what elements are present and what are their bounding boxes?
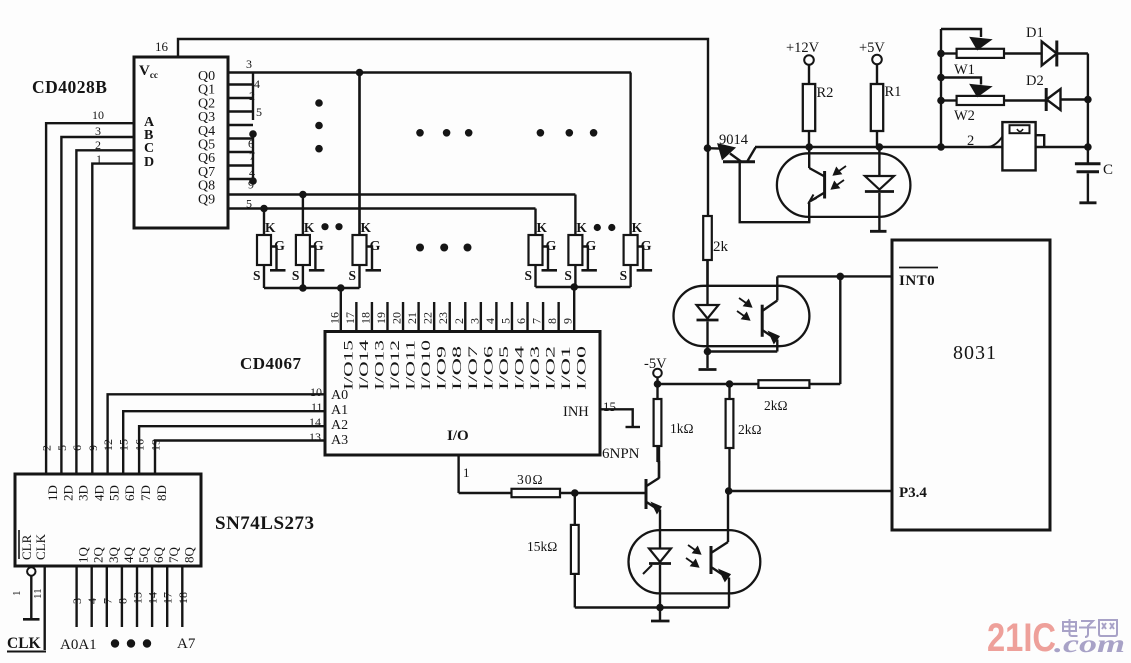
svg-text:K: K bbox=[576, 220, 587, 235]
thyristor V5 K lead bbox=[574, 195, 576, 236]
wire CD4067 IO12 stub bbox=[386, 302, 388, 332]
svg-text:+5V: +5V bbox=[859, 40, 885, 56]
wire 30ohm to base bbox=[560, 492, 645, 494]
svg-text:4: 4 bbox=[483, 318, 497, 324]
potentiometer W1 wiper bbox=[941, 29, 981, 37]
svg-text:I/O15: I/O15 bbox=[341, 340, 355, 390]
transistor Q1 emitter with arrow bbox=[647, 502, 659, 510]
svg-text:CLK: CLK bbox=[7, 635, 41, 652]
resistor R2 bbox=[808, 65, 810, 84]
node R2 bus bbox=[805, 143, 813, 151]
opto3 phototransistor bbox=[710, 546, 713, 574]
wire B to 2D bbox=[61, 137, 134, 474]
wire INH termination bbox=[600, 409, 633, 426]
wire CD4067 IO9 stub bbox=[433, 302, 435, 332]
transistor Q2 base bar bbox=[723, 160, 755, 163]
node W bus bbox=[937, 143, 945, 151]
node cap top bbox=[1084, 143, 1092, 151]
opto2 emitter return wire bbox=[708, 350, 778, 352]
svg-text:G: G bbox=[274, 239, 285, 254]
wire 2k to opto2 LED bbox=[706, 260, 708, 286]
wire CD4067 IO7 stub bbox=[464, 302, 466, 332]
wire Vcc pin16 to node bbox=[178, 39, 708, 216]
ellipsis upper row right bbox=[537, 129, 545, 137]
ellipsis between SCR2 SCR3 bbox=[321, 223, 328, 230]
wire Q1 stub bbox=[228, 83, 253, 85]
svg-text:1Q: 1Q bbox=[76, 547, 91, 564]
svg-text:5: 5 bbox=[55, 445, 69, 451]
wire junction to 15k bbox=[574, 493, 576, 525]
svg-text:A0: A0 bbox=[331, 388, 348, 403]
ellipsis SCR row middle bbox=[416, 244, 424, 252]
svg-text:13: 13 bbox=[309, 430, 321, 444]
svg-text:17: 17 bbox=[343, 312, 357, 324]
svg-text:9: 9 bbox=[86, 445, 100, 451]
svg-text:12: 12 bbox=[101, 439, 115, 451]
IC U2 CD4067 body bbox=[325, 332, 600, 456]
svg-text:11: 11 bbox=[32, 588, 44, 599]
thyristor V3 S lead bbox=[358, 265, 360, 288]
wire Q2 stub bbox=[228, 97, 253, 99]
svg-text:I/O11: I/O11 bbox=[404, 340, 418, 390]
wire A1 from 6D bbox=[123, 411, 325, 474]
thyristor V4 K lead bbox=[534, 209, 536, 236]
svg-text:21: 21 bbox=[405, 312, 419, 324]
wire A3 from 8D bbox=[155, 441, 325, 475]
watermark dian zi wang glyphs bbox=[1063, 619, 1117, 637]
opto2 phototransistor bbox=[761, 305, 764, 337]
svg-text:G: G bbox=[585, 239, 596, 254]
svg-text:G: G bbox=[370, 239, 381, 254]
node stub tie bottom bbox=[249, 177, 257, 185]
thyristor V3 gate lead bbox=[367, 247, 373, 270]
transistor Q2 collector bbox=[748, 148, 756, 162]
svg-text:I/O7: I/O7 bbox=[466, 346, 480, 390]
svg-text:A0A1: A0A1 bbox=[60, 637, 97, 653]
thyristor V1 S lead bbox=[263, 265, 265, 288]
wire INT0 line bbox=[777, 275, 892, 277]
wire U3 output 5Q bbox=[136, 566, 138, 627]
svg-text:S: S bbox=[253, 268, 261, 283]
wire U3 output 4Q bbox=[121, 566, 123, 627]
node INT0 junction bbox=[837, 273, 845, 281]
wire W1 to D1 bbox=[1004, 52, 1042, 54]
wire CD4067 IO1 stub bbox=[557, 302, 559, 332]
svg-text:A2: A2 bbox=[331, 418, 348, 433]
svg-text:7: 7 bbox=[100, 598, 114, 604]
svg-text:INH: INH bbox=[563, 404, 589, 420]
potentiometer W2 body bbox=[957, 96, 1004, 105]
node opto3 LED cathode bbox=[656, 604, 664, 612]
svg-text:23: 23 bbox=[436, 312, 450, 324]
svg-text:5: 5 bbox=[256, 105, 262, 119]
svg-text:I/O12: I/O12 bbox=[388, 340, 402, 390]
thyristor V5 body bbox=[568, 235, 582, 265]
optocoupler U5 body bbox=[629, 530, 761, 593]
svg-text:CD4067: CD4067 bbox=[240, 354, 302, 373]
opto3 LED bbox=[659, 531, 661, 549]
svg-text:G: G bbox=[546, 239, 557, 254]
svg-text:S: S bbox=[292, 268, 300, 283]
ground opto2 bbox=[699, 368, 717, 371]
svg-text:SN74LS273: SN74LS273 bbox=[215, 513, 315, 534]
svg-text:4D: 4D bbox=[91, 485, 106, 501]
svg-text:6: 6 bbox=[70, 445, 84, 451]
relay K1 body bbox=[1002, 122, 1035, 170]
svg-text:18: 18 bbox=[358, 312, 372, 324]
svg-text:A3: A3 bbox=[331, 433, 348, 448]
wire bottom bus bbox=[575, 606, 729, 608]
svg-text:C: C bbox=[144, 141, 154, 156]
svg-text:S: S bbox=[620, 268, 628, 283]
svg-text:G: G bbox=[641, 239, 652, 254]
potentiometer W1 body bbox=[957, 49, 1004, 58]
svg-text:P3.4: P3.4 bbox=[899, 485, 927, 501]
svg-text:2: 2 bbox=[40, 445, 54, 451]
wire W2 to D2 bbox=[1004, 99, 1046, 101]
svg-text:K: K bbox=[361, 220, 372, 235]
opto1 LED bbox=[878, 147, 880, 176]
svg-text:16: 16 bbox=[133, 439, 147, 451]
node 2k vertical top bbox=[726, 380, 734, 388]
resistor R6 2k bbox=[703, 216, 712, 260]
svg-text:I/O: I/O bbox=[447, 428, 469, 444]
svg-text:K: K bbox=[265, 220, 276, 235]
wire extra stub bbox=[228, 178, 253, 180]
svg-text:8: 8 bbox=[545, 318, 559, 324]
IC U3 SN74LS273 body bbox=[15, 474, 201, 566]
svg-text:I/O6: I/O6 bbox=[481, 346, 495, 390]
svg-text:8: 8 bbox=[115, 598, 129, 604]
svg-text:W2: W2 bbox=[954, 108, 975, 124]
wire I/O pin 1 bbox=[457, 455, 459, 493]
wire U3 output 7Q bbox=[166, 566, 168, 627]
svg-text:30Ω: 30Ω bbox=[517, 472, 544, 487]
svg-text:15: 15 bbox=[117, 439, 131, 451]
wire Q6 stub bbox=[228, 151, 253, 153]
svg-text:W1: W1 bbox=[954, 62, 975, 78]
svg-text:I/O5: I/O5 bbox=[497, 346, 511, 390]
svg-text:7: 7 bbox=[530, 318, 544, 324]
wire relay right lead bbox=[1036, 135, 1045, 147]
svg-text:R1: R1 bbox=[885, 84, 902, 100]
thyristor V4 S lead bbox=[534, 265, 536, 287]
wire Q9 net bbox=[228, 207, 536, 209]
svg-text:10: 10 bbox=[92, 108, 104, 122]
svg-text:22: 22 bbox=[421, 312, 435, 324]
svg-text:S: S bbox=[349, 268, 357, 283]
wire 2k to INT0 drop bbox=[809, 383, 840, 385]
svg-text:I/O2: I/O2 bbox=[544, 346, 558, 390]
node W2 left bbox=[937, 97, 945, 105]
svg-text:6: 6 bbox=[514, 318, 528, 324]
svg-text:2: 2 bbox=[452, 318, 466, 324]
node Q0-junction bbox=[356, 69, 364, 77]
thyristor V3 K lead bbox=[358, 73, 360, 236]
svg-text:1kΩ: 1kΩ bbox=[670, 421, 694, 436]
transistor Q1 collector bbox=[647, 478, 660, 486]
resistor 30ohm bbox=[512, 489, 561, 497]
wire diode output vertical bbox=[1087, 54, 1089, 164]
svg-text:I/O8: I/O8 bbox=[450, 346, 464, 390]
svg-text:I/O1: I/O1 bbox=[559, 346, 573, 390]
thyristor V2 gate lead bbox=[310, 247, 316, 270]
svg-text:D: D bbox=[144, 155, 154, 170]
thyristor V4 body bbox=[529, 235, 543, 265]
IC U1 CD4028B body bbox=[134, 57, 228, 228]
svg-text:20: 20 bbox=[390, 312, 404, 324]
resistor R3 1k bbox=[656, 384, 658, 399]
svg-text:I/O14: I/O14 bbox=[357, 339, 371, 390]
wire CD4067 IO11 stub bbox=[402, 302, 404, 332]
svg-text:10: 10 bbox=[310, 385, 322, 399]
ellipsis between SCR5 SCR6 bbox=[594, 224, 601, 231]
IC U7 8031 body bbox=[892, 240, 1050, 530]
svg-text:I/O4: I/O4 bbox=[512, 345, 526, 390]
svg-text:Vcc: Vcc bbox=[139, 63, 158, 80]
wire D to 4D bbox=[92, 164, 134, 474]
node 9014 junction bbox=[704, 144, 712, 152]
wire -5V down bbox=[656, 377, 658, 384]
wire U3 output 1Q bbox=[75, 566, 77, 627]
node S bus SCR2 bbox=[299, 284, 307, 292]
svg-text:K: K bbox=[304, 220, 315, 235]
node W1 left bbox=[937, 50, 945, 58]
svg-text:I/O0: I/O0 bbox=[575, 346, 589, 390]
transistor Q2 base lead bbox=[740, 163, 810, 222]
ground opto1 bbox=[870, 230, 887, 233]
wire to P3.4 bbox=[729, 490, 892, 492]
node S bus to IO15 bbox=[337, 284, 345, 292]
opto1 light arrows bbox=[834, 166, 846, 175]
resistor R4 2k vertical bbox=[728, 384, 730, 399]
svg-text:21IC: 21IC bbox=[987, 616, 1056, 660]
svg-text:5D: 5D bbox=[107, 485, 122, 501]
svg-text:2kΩ: 2kΩ bbox=[764, 398, 788, 413]
wire Q3 stub bbox=[228, 110, 253, 112]
svg-text:5: 5 bbox=[498, 318, 512, 324]
svg-text:18: 18 bbox=[176, 592, 190, 604]
thyristor V5 S lead bbox=[574, 265, 576, 287]
wire CD4067 IO14 stub bbox=[355, 302, 357, 332]
wire U3 output 3Q bbox=[106, 566, 108, 627]
optocoupler U6 body bbox=[777, 153, 911, 217]
node base junction bbox=[571, 489, 579, 497]
wire W chain vertical bbox=[940, 29, 942, 147]
wire S bus drop to IO15 pin16 bbox=[340, 288, 342, 332]
node W1 wiper tie bbox=[937, 74, 945, 82]
svg-text:7Q: 7Q bbox=[166, 547, 181, 564]
ground opto3 bbox=[651, 620, 670, 623]
svg-text:1D: 1D bbox=[45, 485, 60, 501]
svg-text:16: 16 bbox=[155, 39, 169, 54]
node Q9-SCR1 bbox=[260, 205, 268, 213]
svg-text:17: 17 bbox=[161, 592, 175, 604]
node -5V junction bbox=[654, 380, 662, 388]
svg-text:3D: 3D bbox=[75, 485, 90, 501]
opto3 light arrows bbox=[688, 545, 700, 554]
ellipsis upper row left bbox=[416, 129, 424, 137]
optocoupler U4 body bbox=[674, 286, 810, 346]
svg-text:I/O9: I/O9 bbox=[435, 346, 449, 390]
wire CLR pin with bubble bbox=[27, 567, 35, 575]
thyristor V1 body bbox=[257, 235, 271, 265]
wire CD4067 IO6 stub bbox=[480, 302, 482, 332]
svg-text:3: 3 bbox=[246, 57, 252, 71]
wire U3 output 2Q bbox=[90, 566, 92, 627]
transistor Q1 base bar bbox=[645, 479, 648, 509]
svg-text:2: 2 bbox=[967, 133, 974, 149]
wire right S bus bbox=[536, 286, 631, 288]
wire stub tie lower bbox=[252, 134, 254, 181]
wire Q0 net bbox=[228, 71, 631, 73]
wire pin1 to 30ohm bbox=[459, 492, 512, 494]
thyristor V2 S lead bbox=[302, 265, 304, 288]
wire CD4067 IO8 stub bbox=[449, 302, 451, 332]
wire U3 output 8Q bbox=[181, 566, 183, 627]
svg-text:4: 4 bbox=[85, 598, 99, 604]
thyristor V3 body bbox=[353, 235, 367, 265]
capacitor C bbox=[1075, 162, 1101, 165]
svg-text:3: 3 bbox=[467, 318, 481, 324]
relay K1 inner element bbox=[1010, 125, 1030, 133]
svg-text:K: K bbox=[537, 220, 548, 235]
thyristor V6 S lead bbox=[629, 265, 631, 287]
svg-text:8031: 8031 bbox=[953, 342, 997, 364]
svg-text:I/O13: I/O13 bbox=[372, 340, 386, 390]
wire right S bus drop to IO0 pin9 bbox=[573, 287, 575, 332]
wire C to 3D bbox=[76, 150, 134, 474]
thyristor V2 K lead bbox=[302, 195, 304, 236]
svg-text:8D: 8D bbox=[154, 485, 169, 501]
thyristor V1 gate lead bbox=[271, 247, 277, 270]
svg-text:A1: A1 bbox=[331, 403, 348, 418]
svg-text:6Q: 6Q bbox=[151, 547, 166, 564]
wire 15k to bottom bus bbox=[574, 574, 576, 608]
wire W1 left lead bbox=[941, 52, 957, 54]
thyristor V5 gate lead bbox=[582, 247, 588, 270]
svg-text:I/O3: I/O3 bbox=[528, 346, 542, 390]
svg-text:CD4028B: CD4028B bbox=[32, 77, 107, 97]
wire Q8 net bbox=[228, 193, 575, 195]
wire CLK pin bbox=[44, 566, 46, 650]
svg-text:+12V: +12V bbox=[786, 40, 820, 56]
node D2 right bbox=[1084, 96, 1092, 104]
svg-text:S: S bbox=[564, 268, 572, 283]
opto1 phototransistor bbox=[808, 147, 810, 168]
wire A0 from 5D bbox=[108, 394, 325, 474]
svg-text:9: 9 bbox=[248, 178, 254, 192]
opto2 light arrows bbox=[739, 298, 751, 307]
wire Q0 drop to SCR3 bbox=[358, 73, 360, 236]
svg-text:A7: A7 bbox=[177, 636, 196, 652]
node right S bus drop bbox=[570, 283, 578, 291]
svg-text:19: 19 bbox=[374, 312, 388, 324]
wire U3 output 6Q bbox=[151, 566, 153, 627]
resistor R1 bbox=[876, 64, 878, 84]
svg-text:5Q: 5Q bbox=[136, 547, 151, 564]
wire left S bus bbox=[264, 287, 360, 289]
svg-text:15: 15 bbox=[603, 399, 616, 414]
svg-text:CLR: CLR bbox=[19, 534, 34, 560]
svg-text:14: 14 bbox=[146, 592, 160, 604]
svg-text:3Q: 3Q bbox=[106, 547, 121, 564]
svg-text:8Q: 8Q bbox=[181, 547, 196, 564]
transistor Q2 9014 emitter arrow bbox=[708, 147, 721, 150]
wire CD4067 IO10 stub bbox=[417, 302, 419, 332]
wire Q5 stub bbox=[228, 137, 253, 139]
node opto2 cathode junction bbox=[704, 348, 712, 356]
svg-text:G: G bbox=[313, 239, 324, 254]
node Q8-SCR2 bbox=[299, 191, 307, 199]
thyristor V6 gate lead bbox=[638, 247, 644, 270]
wire A to 1D bbox=[46, 123, 134, 474]
ellipsis vertical Q outputs bbox=[315, 99, 323, 107]
resistor R5 2k horizontal bbox=[758, 380, 809, 388]
svg-text:3: 3 bbox=[70, 598, 84, 604]
wire collector to bus bbox=[755, 146, 1088, 148]
wire W2 left lead bbox=[941, 99, 957, 101]
svg-text:1: 1 bbox=[463, 465, 470, 480]
thyristor V6 body bbox=[624, 235, 638, 265]
thyristor V4 gate lead bbox=[543, 247, 549, 270]
svg-text:CLK: CLK bbox=[33, 533, 48, 560]
wire CD4067 IO2 stub bbox=[542, 302, 544, 332]
svg-text:19: 19 bbox=[149, 439, 163, 451]
svg-text:16: 16 bbox=[327, 312, 341, 324]
svg-text:Q9: Q9 bbox=[198, 192, 215, 207]
wire Q7 stub bbox=[228, 164, 253, 166]
svg-text:2k: 2k bbox=[713, 239, 729, 255]
potentiometer W2 wiper bbox=[941, 78, 981, 85]
wire -5V rail bbox=[658, 383, 759, 385]
ground capacitor bbox=[1079, 201, 1096, 204]
svg-text:4Q: 4Q bbox=[121, 547, 136, 564]
svg-text:7D: 7D bbox=[138, 485, 153, 501]
thyristor V6 K lead bbox=[629, 73, 631, 236]
node R1 bus bbox=[876, 143, 884, 151]
wire relay left lead bbox=[988, 137, 1002, 148]
svg-text:6D: 6D bbox=[122, 485, 137, 501]
wire CD4067 IO3 stub bbox=[526, 302, 528, 332]
svg-text:9: 9 bbox=[561, 318, 575, 324]
svg-text:R2: R2 bbox=[817, 85, 834, 101]
svg-text:2kΩ: 2kΩ bbox=[738, 422, 762, 437]
svg-text:INT0: INT0 bbox=[899, 273, 935, 289]
svg-text:D1: D1 bbox=[1026, 25, 1044, 41]
svg-text:D2: D2 bbox=[1026, 73, 1044, 89]
wire Q4 stub bbox=[228, 124, 253, 126]
svg-text:S: S bbox=[525, 268, 533, 283]
svg-text:13: 13 bbox=[131, 592, 145, 604]
thyristor V1 K lead bbox=[263, 209, 265, 236]
svg-text:15kΩ: 15kΩ bbox=[527, 539, 557, 554]
wire stub tie upper bbox=[252, 73, 254, 121]
thyristor V2 body bbox=[296, 235, 310, 265]
node P3.4 junction bbox=[725, 487, 733, 495]
wire CD4067 IO13 stub bbox=[371, 302, 373, 332]
svg-text:2Q: 2Q bbox=[91, 547, 106, 564]
opto2 LED bbox=[706, 260, 708, 305]
svg-text:1: 1 bbox=[11, 591, 23, 597]
wire 1k to Q1 collector bbox=[658, 462, 660, 478]
wire A2 from 7D bbox=[139, 426, 325, 474]
wire CD4067 IO4 stub bbox=[511, 302, 513, 332]
node stub tie top bbox=[249, 130, 257, 138]
svg-text:.com: .com bbox=[1054, 631, 1125, 658]
svg-text:C: C bbox=[1103, 162, 1113, 178]
svg-text:6NPN: 6NPN bbox=[602, 446, 640, 462]
